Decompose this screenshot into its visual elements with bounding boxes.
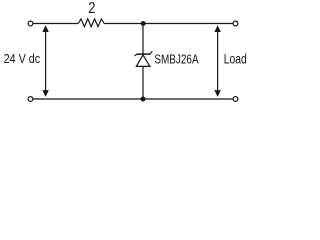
wire top rail right segment	[104, 23, 233, 25]
wire top rail left segment	[33, 23, 78, 25]
load arrow	[214, 25, 220, 97]
svg-text:2: 2	[88, 0, 95, 17]
wire bottom rail	[33, 98, 233, 100]
node junction top	[141, 21, 146, 26]
terminal top-left	[28, 21, 33, 26]
svg-text:Load: Load	[224, 52, 247, 67]
terminal bottom-left	[28, 97, 33, 102]
TVS zener diode SMBJ26A	[135, 51, 153, 66]
node junction bottom	[141, 97, 146, 102]
terminal top-right	[233, 21, 238, 26]
wire zener branch lower	[142, 66, 144, 99]
terminal bottom-right	[233, 97, 238, 102]
voltage source arrow 24 V dc	[42, 25, 48, 97]
resistor 2 ohm	[78, 19, 104, 27]
svg-text:SMBJ26A: SMBJ26A	[154, 53, 199, 67]
svg-text:24 V dc: 24 V dc	[4, 52, 41, 66]
wire zener branch upper	[142, 24, 144, 55]
